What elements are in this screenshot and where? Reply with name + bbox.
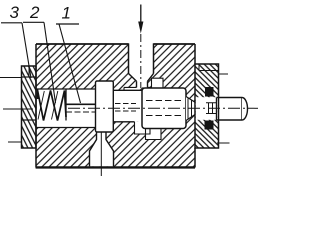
rod washers <box>206 103 217 114</box>
witness line bottom right <box>217 142 230 144</box>
seal O-ring top <box>205 87 214 97</box>
spring chamber edges <box>37 89 96 128</box>
port funnel seat <box>129 74 154 82</box>
bottom port centerline <box>100 132 102 176</box>
reopen cap bore over hatch <box>196 97 218 120</box>
port centerline <box>140 34 142 88</box>
right gland cap <box>195 64 219 148</box>
spring (part 2) <box>38 90 67 121</box>
cone outline <box>186 97 205 121</box>
pocket above piston outline <box>152 78 164 89</box>
cap lower slot line <box>22 119 37 121</box>
collar pocket <box>96 81 114 132</box>
top edge <box>36 43 195 45</box>
bottom port walls <box>90 132 114 167</box>
port neck walls <box>137 81 148 87</box>
left lower witness tick <box>8 141 22 143</box>
body outline strokes <box>36 43 195 167</box>
cone ridges <box>188 98 195 119</box>
cone white <box>186 97 205 121</box>
valve body (hatched section) <box>36 44 195 168</box>
pocket above piston <box>152 78 164 89</box>
piston hidden lines <box>146 101 183 116</box>
seal O-ring bottom <box>205 121 214 130</box>
top port walls <box>129 43 154 73</box>
pocket below piston <box>146 129 162 140</box>
svg-text:1: 1 <box>62 4 71 23</box>
bottom port cavity <box>90 132 114 167</box>
left screw cap (part 3) <box>22 66 37 148</box>
neck side shelf edges <box>124 87 152 90</box>
cap bore white <box>195 97 219 121</box>
pocket below bore outline <box>135 122 151 134</box>
body left edge <box>35 44 37 168</box>
svg-text:3: 3 <box>10 3 20 22</box>
witness line top right <box>219 73 229 75</box>
cap head slot line <box>22 76 37 78</box>
small cavity left of neck <box>124 87 137 90</box>
push rod <box>217 98 243 121</box>
bore walls <box>113 90 142 122</box>
pocket below piston outline <box>146 129 162 140</box>
cone dark tip <box>199 105 206 113</box>
piston cavity <box>142 88 186 129</box>
spring chamber cavity <box>37 89 96 128</box>
body bottom edge <box>36 166 195 168</box>
spring back strands <box>38 91 58 120</box>
pocket below bore <box>135 122 151 134</box>
left axis segment <box>3 108 33 110</box>
main axis centerline <box>68 107 258 109</box>
svg-text:2: 2 <box>29 3 40 22</box>
piston (part 1 body) <box>142 88 186 129</box>
spool collar <box>96 81 114 132</box>
spool stem <box>65 90 67 121</box>
left witness tick <box>0 77 22 79</box>
body right edge <box>194 44 196 168</box>
inlet arrow <box>140 5 142 24</box>
hidden lines in bore <box>115 104 136 112</box>
bore band <box>113 90 142 122</box>
